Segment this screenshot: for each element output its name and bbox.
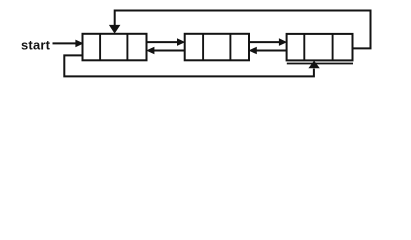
node 3	[287, 34, 353, 61]
start pointer arrow	[53, 40, 84, 48]
prev arrow node2 to node1	[146, 47, 185, 55]
top loop wire node3 next to node1	[109, 11, 371, 49]
bottom loop wire node1 prev to node3	[64, 55, 319, 76]
prev arrow node3 to node2	[249, 47, 287, 55]
next arrow node1 to node2	[147, 38, 186, 46]
svg-text:start: start	[21, 38, 51, 53]
next arrow node2 to node3	[249, 38, 287, 46]
node 2	[185, 34, 249, 61]
shadow line under node 3	[287, 63, 353, 65]
node 1	[83, 34, 147, 61]
